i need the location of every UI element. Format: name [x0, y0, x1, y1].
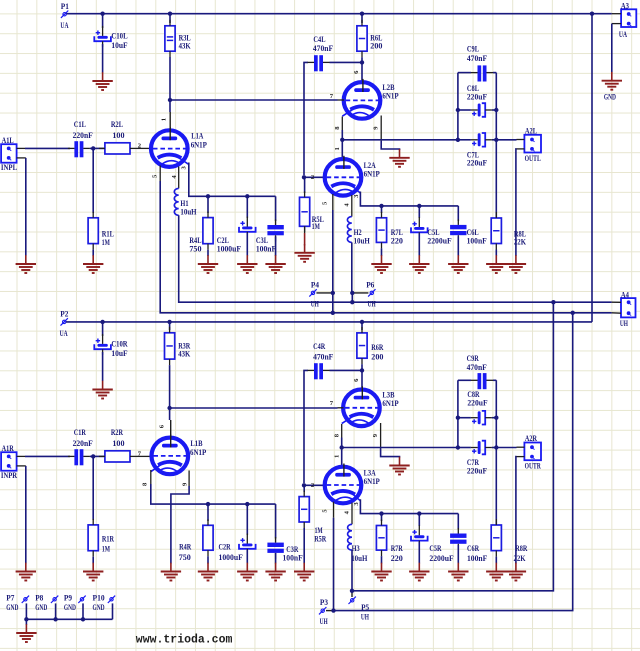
wire C5R top — [418, 514, 420, 526]
wire L2B cathode to output node — [342, 130, 458, 140]
pin 6 label L1B — [159, 420, 171, 438]
wire L2A cathode down — [360, 192, 458, 206]
wire C4L left — [304, 62, 308, 175]
wire R6L bottom to anode node — [361, 57, 363, 62]
svg-text:100nF: 100nF — [256, 244, 276, 253]
pin P2 — [60, 310, 69, 339]
svg-text:43K: 43K — [179, 42, 192, 51]
svg-text:P9: P9 — [64, 593, 72, 602]
svg-text:100: 100 — [112, 131, 124, 140]
pin 3 lead L1A — [181, 165, 188, 169]
pin 4 lead L3A — [344, 503, 353, 525]
svg-text:UH: UH — [620, 319, 629, 328]
svg-text:220nF: 220nF — [73, 131, 93, 140]
svg-text:1: 1 — [334, 147, 341, 150]
wire L3B cathode to output node — [342, 438, 458, 448]
svg-text:7: 7 — [330, 400, 334, 407]
wire L1A cathode down — [189, 163, 276, 197]
svg-text:220uF: 220uF — [467, 92, 487, 101]
ground A2R return — [506, 563, 526, 581]
svg-text:GND: GND — [64, 603, 76, 612]
svg-text:A1R: A1R — [2, 444, 14, 453]
connector A4 — [612, 290, 636, 328]
wire L3B pin9 to ground — [381, 449, 400, 458]
svg-text:4: 4 — [171, 175, 178, 179]
svg-text:GND: GND — [93, 603, 105, 612]
wire H2 bottom to P6 — [351, 242, 353, 293]
svg-text:200: 200 — [370, 42, 382, 51]
svg-text:470nF: 470nF — [313, 352, 333, 361]
capacitor C1R — [68, 428, 93, 465]
junction P7 bus — [24, 617, 28, 621]
svg-text:6: 6 — [353, 70, 360, 74]
junction R1R tap — [91, 454, 95, 458]
resistor R4R — [179, 519, 213, 562]
pin 9 lead L2B — [373, 116, 382, 142]
wire node to L1A anode — [169, 100, 171, 112]
wire R7R bottom — [381, 556, 383, 563]
svg-text:100nF: 100nF — [467, 554, 487, 563]
svg-text:P7: P7 — [6, 593, 14, 602]
ground C3R — [265, 563, 285, 581]
wire node to L2B grid — [170, 99, 338, 101]
junction P9 bus — [81, 617, 85, 621]
ground C5R — [409, 563, 429, 581]
pin P10 — [93, 593, 116, 619]
ground C6R — [448, 563, 468, 581]
svg-text:6N1P: 6N1P — [364, 477, 380, 486]
svg-text:R8R: R8R — [515, 544, 527, 553]
wire C10L to ground — [102, 44, 104, 73]
svg-text:1000uF: 1000uF — [219, 553, 243, 562]
junction L3A grid node — [302, 483, 306, 487]
svg-text:6N1P: 6N1P — [364, 169, 380, 178]
capacitor C2L — [217, 217, 256, 254]
pin P1 — [60, 2, 69, 30]
svg-text:C9R: C9R — [467, 354, 479, 363]
wire output right column R — [495, 380, 497, 525]
junction bus1 right drop — [551, 300, 555, 304]
wire C5L bottom — [418, 234, 420, 257]
junction L2B anode node — [360, 60, 364, 64]
wire R4L bottom — [207, 250, 209, 256]
svg-text:P5: P5 — [361, 603, 369, 612]
wire R6L top — [361, 14, 363, 23]
svg-text:470nF: 470nF — [467, 54, 487, 63]
svg-text:9: 9 — [181, 482, 188, 486]
pin 5 lead L1A — [152, 166, 161, 182]
pin 4 lead L2A — [344, 195, 352, 217]
svg-text:OUTR: OUTR — [525, 462, 541, 471]
junction on UA rail at R3L — [168, 12, 172, 16]
wire R4L top — [207, 196, 209, 213]
capacitor C6R — [450, 528, 487, 563]
wire A2L pin2 return — [515, 149, 518, 256]
wire to L3A grid — [304, 482, 326, 489]
connector A1R — [1, 444, 26, 480]
wire C6R top — [457, 514, 459, 530]
ground A1R return — [16, 563, 36, 581]
svg-text:UH: UH — [311, 299, 320, 308]
wire A1L pin1 to C1L — [25, 147, 70, 149]
svg-text:1M: 1M — [315, 526, 323, 535]
resistor R8L — [491, 212, 526, 250]
pin P6 — [352, 281, 376, 309]
junction P6 bus1 — [350, 300, 354, 304]
wire UA rail left channel — [67, 13, 612, 15]
capacitor C8L — [458, 84, 496, 117]
ground R5L — [294, 244, 314, 262]
wire C1R to R2R — [90, 455, 105, 457]
svg-text:GND: GND — [6, 603, 18, 612]
pin 8 lead L3B — [333, 424, 341, 438]
svg-text:R7R: R7R — [391, 544, 403, 553]
svg-text:R6R: R6R — [371, 343, 383, 352]
junction on UA rail at right drop — [590, 12, 594, 16]
junction P6 node — [350, 291, 354, 295]
capacitor C2R — [219, 534, 256, 562]
ground R1L — [83, 255, 103, 273]
ground R4R — [198, 563, 218, 581]
wire bus2 drop to right channel — [334, 313, 573, 611]
wire R6R bottom to anode node — [361, 364, 363, 370]
junction P4 bus2 — [331, 311, 335, 315]
pin 4 lead L1A — [171, 167, 179, 189]
svg-text:8: 8 — [142, 482, 149, 486]
svg-text:OUTL: OUTL — [525, 154, 542, 163]
ground R7L — [371, 255, 391, 273]
svg-text:UH: UH — [320, 617, 329, 626]
svg-text:750: 750 — [179, 553, 191, 562]
svg-text:6: 6 — [159, 424, 166, 428]
capacitor C3L — [256, 219, 284, 253]
capacitor C3R — [267, 537, 302, 563]
svg-text:R4R: R4R — [179, 542, 191, 551]
wire R8L bottom — [495, 250, 497, 257]
wire R2R to L1B grid — [136, 451, 151, 458]
svg-text:L1A: L1A — [191, 131, 203, 140]
wire R7L top — [381, 206, 383, 213]
ground L2B heater — [389, 149, 409, 167]
wire A1R pin2 to ground — [25, 466, 27, 564]
wire H1 bottom to heater bus — [179, 215, 612, 302]
capacitor C7L — [458, 133, 496, 168]
junction C5R top — [417, 511, 421, 515]
svg-text:1: 1 — [333, 455, 340, 458]
svg-text:C4R: C4R — [313, 342, 325, 351]
wire chassis bus to ground — [25, 619, 27, 625]
wire C6L top — [457, 206, 459, 221]
wire A2R pin2 return — [515, 457, 518, 564]
pin 3 lead L3A — [353, 502, 360, 506]
wire C2L bottom — [246, 233, 248, 256]
svg-text:4: 4 — [344, 510, 351, 514]
svg-text:C9L: C9L — [467, 44, 480, 53]
svg-text:L1B: L1B — [190, 439, 203, 448]
capacitor C6L — [450, 219, 487, 245]
junction L3B anode node — [360, 368, 364, 372]
wire R3L top — [169, 14, 171, 23]
svg-text:UH: UH — [361, 613, 370, 622]
junction rail2 at C10R — [100, 320, 104, 324]
wire R1L bottom to ground — [92, 250, 94, 256]
wire R3R bottom to node — [169, 365, 171, 408]
wire C3L top — [275, 196, 277, 221]
wire L3A cathode down — [360, 499, 458, 513]
capacitor C9R — [458, 354, 496, 389]
pin 8 lead L1B — [142, 470, 151, 486]
connector A2L — [517, 126, 542, 162]
capacitor C10R — [94, 334, 127, 358]
tube triode L1A — [151, 127, 207, 167]
junction P8 bus — [53, 617, 57, 621]
resistor R6L — [357, 20, 383, 57]
node L3B grid junction — [167, 406, 171, 410]
svg-text:A2L: A2L — [525, 126, 538, 135]
junction C7R right — [494, 445, 498, 449]
tube triode L3B — [342, 386, 399, 426]
svg-text:C10L: C10L — [111, 31, 128, 40]
wire R5L top — [304, 177, 306, 193]
junction P3 node — [331, 608, 335, 612]
wire C6L bottom — [457, 236, 459, 256]
wire output left column R — [457, 380, 459, 447]
svg-text:INPL: INPL — [1, 163, 18, 172]
svg-text:C2R: C2R — [219, 542, 231, 551]
wire node to L3B grid — [170, 407, 338, 409]
wire C5R bottom — [418, 542, 420, 564]
capacitor C4L — [308, 35, 334, 71]
junction C2R top — [245, 502, 249, 506]
wire H3 bottom to P5 — [351, 550, 353, 591]
svg-text:R2R: R2R — [111, 428, 123, 437]
capacitor C7R — [458, 441, 496, 476]
wire R6R top — [361, 322, 363, 330]
svg-text:220uF: 220uF — [467, 398, 487, 407]
svg-text:100: 100 — [112, 439, 124, 448]
wire R8R bottom — [495, 557, 497, 564]
svg-text:A2R: A2R — [525, 434, 537, 443]
pin 7 label L3B — [330, 400, 344, 408]
wire R7L bottom — [381, 248, 383, 256]
wire output right column — [495, 73, 497, 218]
ground C2R — [237, 563, 257, 581]
junction L2A grid node — [302, 175, 306, 179]
svg-text:C6R: C6R — [467, 544, 479, 553]
wire R1R top — [92, 456, 94, 520]
svg-text:UA: UA — [60, 21, 68, 30]
junction C7R left — [456, 445, 460, 449]
junction C5L top — [417, 204, 421, 208]
svg-text:220: 220 — [391, 236, 403, 245]
pin 9 lead L1B — [181, 471, 189, 487]
svg-text:C1R: C1R — [74, 428, 86, 437]
ground R8L — [486, 255, 506, 273]
node L2B grid junction — [168, 98, 172, 102]
wire L3A pin5 to P3 — [333, 518, 335, 611]
svg-text:43K: 43K — [178, 350, 191, 359]
wire UA rail right channel — [66, 321, 592, 323]
svg-text:10uF: 10uF — [111, 349, 127, 358]
svg-text:220: 220 — [391, 554, 403, 563]
wire C6R bottom — [457, 545, 459, 564]
junction C7L right — [494, 138, 498, 142]
capacitor C10L — [94, 26, 128, 50]
resistor R8R — [491, 519, 527, 563]
ground R1R — [83, 563, 103, 581]
connector A2R — [517, 434, 542, 470]
junction P4 node — [331, 291, 335, 295]
svg-text:A3: A3 — [621, 1, 629, 10]
wire C2R top — [246, 504, 248, 535]
wire to L2A grid — [304, 174, 326, 181]
svg-text:220nF: 220nF — [73, 439, 93, 448]
pin P9 — [64, 593, 86, 619]
wire R1L top — [92, 148, 94, 213]
junction R1L tap — [91, 146, 95, 150]
pin 8 lead L2B — [334, 117, 342, 131]
junction on UA rail at C10L — [100, 12, 104, 16]
pin 1 label L1A — [161, 112, 171, 130]
wire C5L top — [418, 206, 420, 218]
pin P5 — [349, 592, 370, 622]
svg-text:C4L: C4L — [313, 35, 326, 44]
svg-text:1M: 1M — [312, 222, 320, 231]
wire C3R bottom — [275, 553, 277, 564]
ground A2L return — [506, 255, 526, 273]
svg-text:8: 8 — [333, 433, 340, 437]
ground L3B heater — [389, 457, 409, 475]
resistor R2L — [99, 120, 136, 154]
resistor R5R — [299, 491, 326, 544]
svg-text:P3: P3 — [320, 598, 328, 607]
junction R7L top — [379, 204, 383, 208]
wire UA rail drop to right channel — [591, 14, 593, 322]
svg-text:P4: P4 — [311, 281, 319, 290]
wire output node to A2L — [496, 139, 516, 141]
svg-text:8: 8 — [334, 126, 341, 130]
junction on UA rail at R6L — [360, 12, 364, 16]
connector A3 — [612, 1, 637, 39]
svg-text:6N1P: 6N1P — [382, 399, 398, 408]
resistor R7L — [376, 212, 403, 249]
svg-text:220uF: 220uF — [467, 159, 487, 168]
svg-text:100nF: 100nF — [467, 236, 487, 245]
wire C2R bottom — [246, 550, 248, 564]
wire R2L to L1A grid — [136, 143, 151, 150]
svg-text:5: 5 — [322, 509, 329, 513]
pin 7 label L2B — [330, 93, 344, 100]
tube triode L2A — [325, 156, 380, 196]
capacitor C1L — [68, 120, 93, 157]
pin 3 lead L2A — [353, 194, 360, 198]
svg-text:10uH: 10uH — [354, 236, 371, 245]
svg-text:1000uF: 1000uF — [217, 244, 241, 253]
ground chassis — [16, 624, 36, 642]
svg-text:P1: P1 — [61, 2, 69, 11]
junction R7R top — [379, 511, 383, 515]
connector A1L — [1, 136, 26, 172]
wire A1L pin2 to ground — [25, 158, 27, 256]
wire P4 node to bus2 — [332, 293, 334, 313]
pin P8 — [35, 593, 58, 619]
svg-text:220uF: 220uF — [467, 466, 487, 475]
svg-text:2200uF: 2200uF — [427, 236, 451, 245]
junction C2L top — [245, 194, 249, 198]
junction L2B cathode node — [340, 138, 344, 142]
wire R4R bottom — [207, 556, 209, 563]
ground C10R — [92, 381, 112, 399]
svg-text:C1L: C1L — [74, 120, 87, 129]
wire node to L1B anode — [169, 408, 171, 420]
wire R5L bottom — [304, 226, 306, 245]
svg-text:1M: 1M — [102, 544, 110, 553]
svg-text:9: 9 — [373, 126, 380, 130]
pin P3 — [319, 598, 334, 626]
svg-text:H3: H3 — [352, 544, 360, 553]
text www.trioda.com — [136, 633, 233, 647]
wire R7R top — [381, 514, 383, 521]
resistor R7R — [376, 520, 402, 564]
svg-text:1: 1 — [161, 118, 168, 121]
svg-text:P2: P2 — [60, 310, 68, 319]
svg-text:A4: A4 — [621, 290, 629, 299]
wire A3 pin2 to ground — [611, 24, 613, 73]
svg-text:750: 750 — [189, 244, 201, 253]
wire R1R bottom to ground — [92, 557, 94, 564]
svg-text:A1L: A1L — [2, 136, 15, 145]
wire output node to A2R — [496, 447, 516, 449]
junction rail2 at R6R — [360, 320, 364, 324]
svg-text:R1R: R1R — [102, 535, 114, 544]
svg-text:9: 9 — [372, 433, 379, 437]
junction L3B cathode node — [340, 445, 344, 449]
ground C5L — [409, 255, 429, 273]
svg-text:10uH: 10uH — [180, 207, 197, 216]
svg-text:C5R: C5R — [429, 544, 441, 553]
wire output left column — [457, 73, 459, 140]
wire C10R top — [102, 322, 104, 336]
svg-text:6N1P: 6N1P — [190, 448, 206, 457]
svg-text:3: 3 — [181, 165, 188, 169]
wire chassis ground bus — [26, 618, 112, 620]
svg-text:C10R: C10R — [111, 339, 127, 348]
svg-text:470nF: 470nF — [467, 363, 487, 372]
svg-text:UA: UA — [60, 329, 68, 338]
wire bus1 drop to right channel — [352, 302, 553, 591]
svg-text:2200uF: 2200uF — [429, 554, 453, 563]
svg-text:10uH: 10uH — [351, 554, 368, 563]
wire L2B cathode to L2A anode — [334, 140, 342, 158]
ground C3L — [265, 255, 285, 273]
wire L3B cathode to L3A anode — [333, 448, 341, 466]
svg-text:6N1P: 6N1P — [191, 140, 207, 149]
wire R5R bottom — [303, 528, 305, 564]
wire C4R left — [304, 370, 308, 483]
junction P5 node — [350, 589, 354, 593]
svg-text:7: 7 — [330, 93, 334, 100]
ground R5R — [294, 563, 314, 581]
svg-text:GND: GND — [35, 603, 47, 612]
wire R5R top — [303, 485, 305, 492]
capacitor C4R — [308, 342, 334, 379]
svg-text:5: 5 — [322, 201, 329, 205]
ground C2L — [237, 255, 257, 273]
svg-text:www.trioda.com: www.trioda.com — [136, 633, 233, 647]
junction C7L left — [456, 138, 460, 142]
svg-text:200: 200 — [371, 352, 383, 361]
svg-text:GND: GND — [604, 92, 616, 101]
